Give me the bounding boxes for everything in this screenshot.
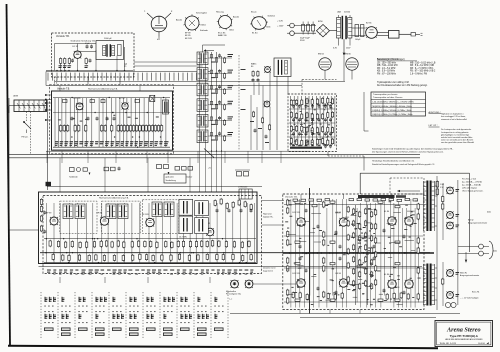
svg-text:EZ 81: EZ 81	[366, 23, 372, 25]
switch wafer S6 name plate	[129, 328, 139, 336]
svg-text:Såledninger måtte med tilmo: Såledninger måtte med tilmodtænder og ud…	[372, 147, 454, 150]
switch wafer S7 row1 contacts	[147, 297, 156, 307]
small cluster right of tone row	[208, 167, 250, 176]
AM tuner value specks	[290, 100, 333, 145]
svg-text:EM 84: EM 84	[318, 54, 325, 56]
svg-text:g: g	[171, 11, 173, 13]
svg-text:Gitter: Gitter	[229, 29, 234, 32]
left margin components	[40, 198, 46, 234]
wire below module A to band	[87, 77, 89, 85]
resistor R25	[215, 136, 217, 141]
right column wire x437	[436, 176, 438, 310]
smoothing capacitor block C100	[300, 22, 315, 43]
svg-text:højttaler HL.: højttaler HL.	[263, 215, 274, 218]
IF can M6	[164, 202, 174, 217]
switch wafer S3 row1 contacts	[79, 297, 88, 307]
capacitor C23	[210, 101, 212, 104]
mains input socket	[290, 23, 295, 28]
arrow feed to output	[400, 190, 420, 192]
wire tube to trafo	[81, 51, 96, 53]
capacitor C1	[71, 59, 74, 61]
wire tube top to rail	[77, 44, 79, 52]
svg-text:ECC 83: ECC 83	[293, 212, 301, 214]
svg-text:Gelb/rot: Gelb/rot	[268, 15, 276, 18]
pentode V14	[97, 213, 109, 226]
central module rail 3	[44, 262, 256, 264]
jack socket pair	[445, 302, 450, 307]
capacitor C33	[218, 101, 221, 103]
switch wafer S5 name plate	[112, 328, 122, 331]
power amp right resistor column	[417, 203, 419, 300]
svg-text:Ausgangstransformator: Ausgangstransformator	[460, 274, 480, 277]
triode V7	[74, 98, 84, 110]
svg-text:EF 85: EF 85	[185, 35, 191, 37]
wire HT vertical from transformer	[343, 56, 345, 81]
right column wire x458	[457, 180, 459, 305]
tube type specks right column	[456, 189, 460, 297]
wire speaker link	[458, 246, 479, 248]
label IF5	[228, 116, 234, 117]
svg-text:EL 84: EL 84	[384, 274, 390, 276]
wire module UL mid drops	[77, 58, 79, 70]
resistor R1	[60, 59, 62, 64]
switch wafer S10 name plate	[197, 328, 207, 336]
svg-text:40Ω: 40Ω	[487, 211, 491, 214]
tube socket V4 bottom view	[250, 11, 275, 35]
tuning gang capacitor	[14, 100, 47, 112]
IF strip vertical bus 3	[221, 56, 223, 152]
switch wafer S5 row2 contacts	[113, 311, 125, 323]
svg-text:hvis anslagget 170 er tiln: hvis anslagget 170 er tilnæ;	[441, 115, 466, 118]
IF can M1	[63, 204, 73, 219]
svg-text:KB : 5,9—18 MHz: KB : 5,9—18 MHz	[377, 71, 396, 73]
svg-text:Gitter: Gitter	[201, 24, 206, 27]
IF strip switch diagonal	[204, 149, 214, 158]
svg-text:350V: 350V	[300, 40, 305, 42]
wire harness upper rail	[46, 71, 210, 73]
svg-text:Vorstufe T.B.: Vorstufe T.B.	[285, 196, 298, 199]
wire V12 drop	[351, 70, 353, 79]
sub-box group 2 dashed	[102, 201, 141, 233]
switch wafer S11 row1 contacts	[215, 297, 224, 307]
switch wafer S11 name plate	[214, 328, 224, 331]
bus-to-module verticals	[60, 158, 190, 192]
output tube V20	[336, 212, 348, 226]
wire transformer to power-bus arrow	[343, 39, 345, 52]
triode V10	[264, 101, 270, 107]
IF can M5	[152, 202, 162, 217]
svg-text:ACHTUNG !: ACHTUNG !	[429, 111, 441, 114]
module UL resistor labels	[59, 65, 89, 68]
module A left pin stubs	[46, 94, 52, 96]
IF can M3	[106, 204, 116, 219]
power amp vertical heavy	[309, 188, 311, 314]
ACHTUNG paragraph	[441, 113, 467, 121]
wire module A verticals	[55, 98, 166, 147]
svg-text:gleichgültiges nur niederwer: gleichgültiges nur niederwertige	[441, 133, 470, 136]
output tube V22	[405, 217, 413, 225]
wire exit down from module UL	[60, 64, 62, 72]
label dark strip power amp	[358, 195, 395, 198]
svg-text:Ig = 25mA — 60(mA): Ig = 25mA — 60(mA)	[462, 184, 481, 187]
filter capacitor C102	[361, 25, 364, 37]
speaker terminal HT+	[479, 244, 484, 249]
svg-text:40Ω: 40Ω	[493, 250, 497, 253]
AM tuner dark label strip	[290, 147, 322, 149]
oscillator coil box L1	[96, 41, 124, 60]
svg-text:Vorstufe T.B.: Vorstufe T.B.	[56, 35, 70, 38]
capacitor C31	[257, 79, 260, 81]
svg-text:50µF 50µF: 50µF 50µF	[300, 38, 311, 40]
power amp verticals	[291, 199, 419, 308]
phono tube V18	[245, 280, 253, 288]
svg-text:Braun: Braun	[251, 11, 257, 14]
svg-text:Schirmgitter: Schirmgitter	[196, 12, 207, 15]
svg-text:K4(K14) 6,1MHz | 10,7MHz | 0,7: K4(K14) 6,1MHz | 10,7MHz | 0,7MHz | 9kHz	[373, 114, 413, 116]
switch wafer S11 row2 contacts	[215, 311, 224, 323]
switch wafer S9 row1 contacts	[181, 297, 190, 307]
transformer T1 primary winding	[103, 45, 106, 55]
amp lower rail	[230, 313, 460, 315]
channel list lines	[377, 62, 436, 75]
wire detector vertical x277	[276, 77, 278, 151]
gap link wires to power amp	[262, 200, 284, 202]
IF can M4	[118, 204, 128, 219]
svg-text:+ 250V: + 250V	[277, 26, 284, 28]
bus stub rail	[46, 150, 310, 152]
svg-text:EF 89: EF 89	[185, 33, 191, 35]
tone control cluster	[157, 165, 193, 179]
bridge rectifier B250	[317, 21, 330, 37]
note Pmax block	[462, 179, 484, 193]
switch wafer S3 row2 contacts	[79, 311, 88, 323]
module UL dashed drops	[54, 77, 56, 86]
title block inner box	[437, 322, 491, 345]
svg-text:TEGN. NR. D-1123: TEGN. NR. D-1123	[440, 343, 457, 345]
svg-text:ECC 85: ECC 85	[74, 98, 82, 100]
power amp top row boxes	[293, 198, 418, 201]
svg-text:80: 80	[251, 66, 254, 68]
svg-text:Ausgangstransformator: Ausgangstransformator	[468, 221, 488, 224]
trimmer C10	[63, 100, 68, 103]
svg-text:6,3V: 6,3V	[333, 48, 338, 50]
svg-text:50/250: 50/250	[344, 12, 351, 14]
svg-text:k: k	[157, 39, 159, 41]
svg-text:10-9-58: 10-9-58	[478, 343, 485, 345]
svg-text:100µF: 100µF	[355, 39, 361, 41]
transformer T1 core	[106, 44, 107, 56]
output transformer T201 windings	[424, 181, 435, 231]
svg-text:welche leicht verstärkt wer: welche leicht verstärkt werden,Bitte	[441, 136, 473, 139]
IF strip vertical bus 1	[211, 52, 213, 152]
module box Vorstufe T.B.	[52, 33, 135, 77]
svg-text:FM ant.: FM ant.	[22, 136, 29, 139]
resistor bank central row2	[52, 253, 252, 262]
svg-text:+7v: +7v	[208, 167, 211, 169]
resistor R23	[215, 104, 217, 109]
AM tuner rails	[289, 108, 336, 110]
switch wafer S10 row1 contacts	[198, 297, 207, 307]
switch wafer S10 row2 contacts	[198, 311, 210, 323]
capacitor C34	[218, 116, 221, 118]
tube socket V3 bottom view	[216, 12, 240, 38]
wire right drop x364	[363, 92, 365, 131]
power amp horizontal rails	[284, 204, 423, 206]
svg-text:EL 84: EL 84	[252, 33, 258, 35]
svg-text:Fernsehgerät T.A.: Fernsehgerät T.A.	[226, 293, 241, 296]
wire exit left of module UL	[46, 70, 54, 72]
svg-text:Kanalvælger (Anordninger): Kanalvælger (Anordninger)	[377, 58, 405, 61]
wire gang drop dashed	[26, 112, 28, 122]
wire detector drops	[253, 83, 255, 96]
svg-text:UKW: UKW	[13, 96, 19, 98]
svg-text:De Lautsprecher sind dynami: De Lautsprecher sind dynamische	[441, 128, 472, 131]
module AM tuner top dashed link	[302, 79, 337, 81]
svg-text:EF 89: EF 89	[46, 213, 52, 215]
svg-text:Ohne Signal gemessen.: Ohne Signal gemessen.	[462, 191, 484, 193]
svg-text:← + 12 Volts häufigen: ← + 12 Volts häufigen	[460, 297, 479, 300]
capacitor C24	[210, 117, 212, 120]
label IF6	[228, 132, 234, 133]
output tube V23	[293, 273, 306, 287]
resistor R30	[224, 58, 226, 62]
switch wafer S8 row2 contacts	[164, 311, 173, 323]
central module junction dots	[45, 238, 248, 263]
switch wafer S4 row2 contacts	[96, 311, 105, 323]
frame bottom border	[8, 346, 438, 348]
svg-text:Højttalere en højttaleren i: Højttalere en højttaleren i	[441, 113, 464, 116]
output section dashed sub-box	[390, 178, 424, 194]
module box central inner dashed	[43, 196, 262, 274]
svg-text:ECC 83: ECC 83	[293, 273, 301, 275]
wire socket V1 stub	[158, 37, 160, 41]
output tube V25	[384, 274, 396, 288]
svg-text:HEDE NIELSENS FABRIKER A/S HO: HEDE NIELSENS FABRIKER A/S HORSENS	[445, 338, 483, 341]
central module verticals	[47, 203, 255, 263]
wire module A top rail	[53, 97, 170, 99]
central module rail 2 long bus	[40, 252, 430, 254]
triode V16	[203, 223, 214, 236]
svg-text:Lautsprecher in richtig geb: Lautsprecher in richtig gebaute	[441, 131, 469, 134]
IF strip guide labels	[241, 69, 246, 70]
label IF3	[228, 85, 234, 86]
arrow speaker feed	[465, 252, 467, 259]
svg-text:EF 86: EF 86	[336, 273, 342, 275]
IF transformer can IF1	[197, 52, 208, 65]
resistor R190	[436, 182, 439, 188]
IF strip verticals extension	[200, 150, 222, 192]
svg-text:KB : 6—7,3 MHz | KB 1: KB : 6—7,3 MHz | KB 1	[410, 68, 434, 70]
value labels central module	[47, 270, 253, 275]
power amp value specks	[285, 200, 420, 305]
svg-text:gedruckte: gedruckte	[166, 176, 174, 179]
capacitor C21	[210, 70, 212, 73]
svg-text:1000 pF: 1000 pF	[104, 38, 112, 40]
IF strip left verticals	[199, 52, 201, 150]
IF strip vertical bus 2	[216, 52, 218, 152]
power amp resistor banks col2	[323, 201, 325, 298]
wire module UL bottom rail	[54, 70, 133, 72]
wire rectifier to transformer	[330, 30, 338, 32]
resistor R191	[436, 189, 439, 195]
svg-text:M4(M14) 460kHz | 460kHz | 460k: M4(M14) 460kHz | 460kHz | 460kHz | 9kHz	[373, 106, 412, 108]
switch wafer S8 row1 contacts	[164, 297, 176, 307]
svg-text:a: a	[144, 11, 146, 13]
power amp center bus thick	[283, 252, 434, 254]
capacitor C25	[210, 133, 212, 136]
sub-box group 3 dashed	[142, 200, 178, 234]
mains cord	[399, 33, 411, 35]
svg-text:EF 85: EF 85	[97, 213, 103, 215]
junction box left margin	[46, 182, 52, 186]
mains plug housing	[389, 31, 400, 39]
svg-text:KB : 5,9—6,2 MHz | MB: KB : 5,9—6,2 MHz | MB	[410, 65, 434, 67]
capacitor C35	[218, 132, 221, 134]
tube V31	[447, 292, 454, 299]
frame left border	[7, 4, 11, 345]
IF transformer can IF6	[197, 130, 208, 143]
IF transformer can IF5	[197, 114, 208, 127]
svg-text:Der Drucktastenschalter ist: Der Drucktastenschalter ist in FM Stellu…	[377, 84, 428, 87]
AM tuner component row 2	[290, 111, 333, 120]
switch wafer S7 row2 contacts	[147, 311, 156, 323]
IF can stack M8	[195, 201, 209, 234]
svg-text:10,7 MHz: 10,7 MHz	[179, 237, 187, 239]
capacitor C30	[252, 79, 255, 81]
junction dots module A	[71, 97, 164, 148]
module UL extra caps	[86, 45, 89, 47]
module box FM front end outer dashed	[50, 85, 174, 154]
capacitor C13	[101, 100, 105, 103]
IF can stack M7	[179, 199, 193, 238]
detector area parts	[250, 111, 271, 143]
switch box cluster	[238, 186, 252, 200]
svg-text:Extra HL: Extra HL	[472, 290, 479, 293]
svg-text:ECC 85: ECC 85	[218, 33, 226, 35]
wire harness lower rail	[46, 85, 302, 87]
output tube V21	[384, 211, 396, 225]
svg-text:1 kΩ: 1 kΩ	[440, 184, 445, 186]
coil can L8	[163, 100, 169, 114]
AM tuner verticals	[291, 96, 335, 146]
capacitor C22	[210, 86, 212, 89]
power amp horizontal resistors	[295, 201, 400, 301]
resistor R32	[224, 89, 226, 93]
module box FM front end solid	[52, 91, 173, 150]
harness tap ticks	[48, 73, 206, 81]
wire detector vertical x288	[287, 77, 289, 95]
AM tuner component row 1	[290, 97, 333, 106]
band left closure	[45, 72, 47, 86]
IF transformer can IF3	[197, 83, 208, 96]
speaker bracket	[489, 241, 493, 259]
svg-text:Lyd: Lyd	[124, 64, 127, 66]
switch wafer S2 row1 contacts	[62, 297, 71, 307]
wire x257 drop	[256, 107, 258, 150]
triode V6 EC92	[73, 46, 82, 58]
audio bus upper	[9, 154, 420, 156]
svg-text:B250: B250	[318, 21, 324, 23]
tube socket V1 bottom view	[144, 11, 173, 42]
power amp link segments	[287, 210, 415, 305]
capacitor C5	[118, 45, 122, 56]
triode V8	[119, 98, 128, 109]
capacitor C31	[218, 70, 221, 72]
wire x263 drop	[262, 86, 264, 151]
capacitor C20	[210, 55, 212, 58]
svg-text:EF 183: EF 183	[185, 38, 193, 40]
wire module UL left drop	[54, 44, 56, 71]
AM tuner cap row 4	[292, 144, 332, 148]
resistor R22	[215, 89, 217, 94]
svg-text:Kathode: Kathode	[200, 29, 209, 32]
wire gang to frame	[9, 105, 14, 107]
volume control cluster	[69, 167, 121, 179]
central module rail 1	[44, 238, 256, 240]
svg-text:Høje toner: Høje toner	[263, 213, 272, 216]
resistor R31	[257, 72, 259, 76]
wire V11 drop	[324, 70, 326, 79]
wire amp bottom exits	[299, 310, 301, 314]
svg-text:Harmonische Abstimmung T.B.: Harmonische Abstimmung T.B.	[88, 87, 118, 90]
wire module A bottom rail	[53, 146, 170, 148]
wire module UL top rail	[55, 43, 97, 45]
svg-text:Tilnæslinge Strømforbindelse: Tilnæslinge Strømforbindelse ved tilbeds…	[372, 159, 415, 162]
wire x270 drop	[269, 72, 271, 101]
right column wire x443	[442, 183, 444, 240]
wire module UL right drop	[124, 47, 126, 71]
pentode V15	[142, 214, 154, 227]
phono tube V17	[231, 280, 239, 288]
power amp center network	[351, 205, 376, 305]
output transformer T202 windings	[424, 264, 435, 305]
long rail y266	[39, 266, 423, 268]
power amp junction dots	[289, 252, 408, 253]
svg-text:EABC 80: EABC 80	[218, 34, 227, 37]
LET OP paragraph	[441, 128, 475, 144]
resistor R21	[215, 73, 217, 78]
capacitor C30	[218, 54, 221, 56]
AM tuner cap row 1	[292, 104, 332, 108]
indicator tube V12	[345, 54, 358, 71]
wire module A lower rail2	[53, 149, 170, 151]
svg-text:EF 183: EF 183	[142, 214, 149, 216]
svg-text:EM 80: EM 80	[345, 54, 352, 56]
switch wafer S6 row1 contacts	[130, 297, 139, 307]
power amp bottom extra resistors	[292, 292, 409, 301]
resistor R4	[85, 59, 87, 64]
output transformer T201 core	[426, 181, 428, 232]
AM tuner component row 3	[290, 125, 333, 134]
wire left feed to module A	[8, 106, 10, 158]
switch wafer S9 row2 contacts	[181, 311, 193, 323]
printed wiring label box	[164, 174, 186, 183]
svg-text:MB : 510—1610 kHz | LB: MB : 510—1610 kHz | LB	[410, 62, 436, 64]
indicator tube V11 EM84	[318, 54, 331, 71]
wire AM tuner to amp path	[327, 152, 329, 157]
audio bus lower	[9, 157, 420, 159]
switch wafer S4 row1 contacts	[96, 297, 108, 307]
label IF4	[228, 101, 234, 102]
svg-text:EABC: EABC	[251, 63, 257, 66]
switch wafer S1 row1 contacts	[45, 297, 57, 307]
svg-text:Harmonische Abstimmung T.B.: Harmonische Abstimmung T.B.	[99, 197, 129, 200]
value labels module A	[55, 141, 169, 146]
capacitor C14	[135, 100, 140, 103]
resistor R34	[224, 120, 226, 124]
svg-text:Gedruckte Schaltung T.B.: Gedruckte Schaltung T.B.	[71, 39, 96, 42]
transformer T1 secondary winding	[112, 45, 115, 55]
